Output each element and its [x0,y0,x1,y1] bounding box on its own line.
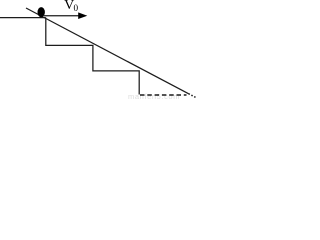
wire: top step surface line [0,17,46,19]
wire: staircase outline [46,18,139,95]
wire: dashed ground level line [140,94,187,96]
svg-text:0: 0 [74,3,79,13]
wire: dotted diagonal tail [189,94,196,98]
ball [38,7,45,17]
svg-text:manfen5.com: manfen5.com [128,92,180,100]
wire: velocity arrow shaft [44,15,80,17]
arrowhead of velocity arrow [78,12,87,19]
wire: diagonal line through step corners [26,8,189,94]
